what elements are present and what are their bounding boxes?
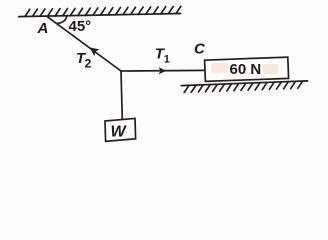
ground: [181, 81, 307, 86]
angle arc 45: [57, 16, 67, 23]
svg-text:C: C: [194, 41, 206, 58]
svg-text:60 N: 60 N: [230, 61, 262, 78]
wire rope junction to block (T1): [121, 69, 205, 72]
svg-text:W: W: [111, 123, 128, 140]
svg-text:2: 2: [85, 56, 92, 70]
arrowhead T1: [159, 67, 167, 74]
block 60N outline: [205, 57, 289, 81]
ceiling: [19, 14, 181, 17]
wire rope junction to weight W: [121, 71, 122, 120]
svg-text:A: A: [37, 20, 49, 37]
svg-text:1: 1: [164, 54, 170, 66]
weight box W: [105, 118, 136, 141]
ground hatching: [184, 81, 302, 92]
scan smudge right: [263, 64, 278, 74]
svg-text:45°: 45°: [69, 18, 92, 35]
ceiling hatching: [25, 6, 181, 16]
scan smudge left: [211, 63, 228, 73]
wire rope A to junction (T2): [48, 17, 121, 71]
arrowhead T2: [90, 47, 100, 56]
